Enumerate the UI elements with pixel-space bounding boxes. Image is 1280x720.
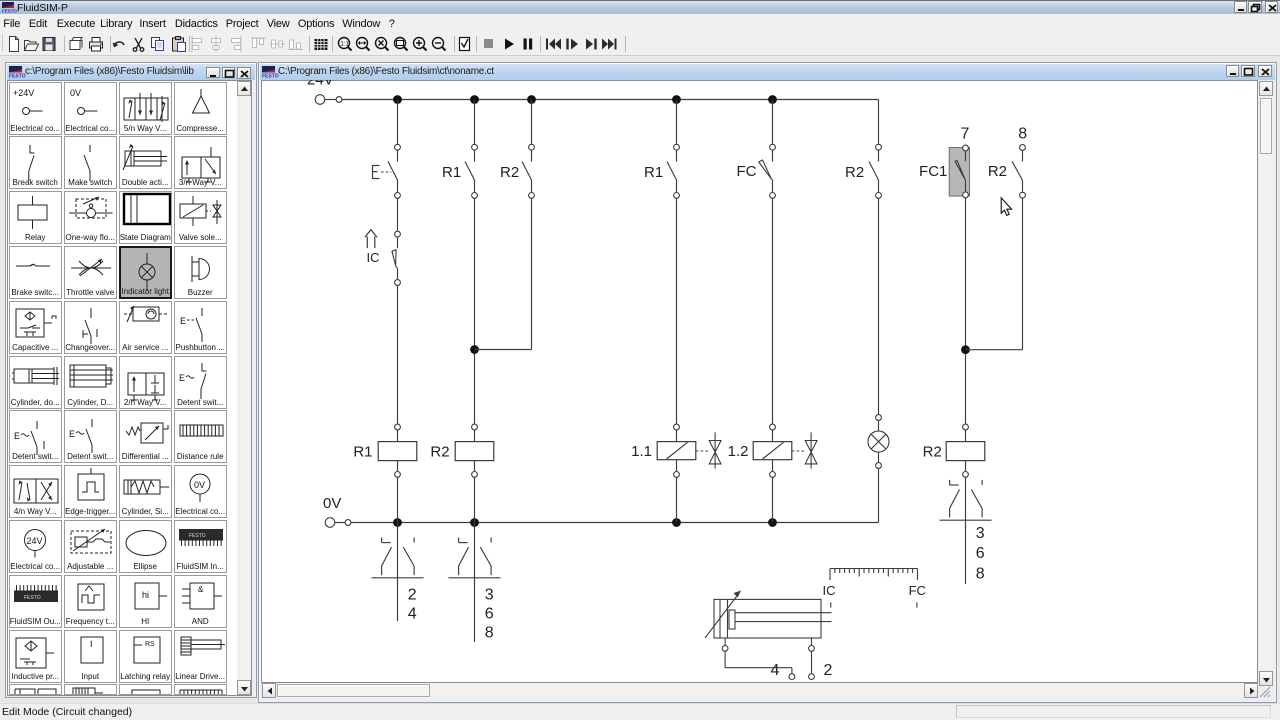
svg-text:FC1: FC1 <box>919 163 947 180</box>
library cell: Air service ... <box>119 301 172 354</box>
pushbutton switch E (make contact) <box>373 144 401 198</box>
wire branch6 mid <box>878 198 880 414</box>
wire branch8 down and left to B7 <box>966 198 1023 350</box>
library cell: partial <box>119 684 172 695</box>
svg-text:6: 6 <box>485 605 494 622</box>
svg-text:IC: IC <box>367 250 380 265</box>
svg-text:I: I <box>90 639 93 649</box>
node junction 0V/B5 <box>768 518 777 527</box>
library cell: Brake switc... <box>9 246 62 299</box>
contact cross-reference table R2-right (pins 3,6,8) <box>940 477 992 584</box>
wire 0V rail <box>351 522 879 524</box>
cylinder port 4 stub <box>722 638 728 651</box>
wire branch2 top <box>474 100 476 145</box>
svg-text:3: 3 <box>485 586 494 603</box>
contact R2 (make, node 8) <box>988 145 1026 199</box>
svg-text:&: & <box>198 585 204 594</box>
wire branch1 to 0V <box>397 477 399 522</box>
library cell: partial <box>174 684 227 695</box>
library cell: Cylinder, D... <box>64 356 117 409</box>
library cell: Adjustable ... <box>64 520 117 573</box>
node junction 24V/B5 <box>768 95 777 104</box>
node junction 0V/B2 <box>470 518 479 527</box>
node junction 0V/B1 <box>393 518 402 527</box>
library cell: Break switch <box>9 136 62 189</box>
wire branch1 mid <box>397 198 399 231</box>
node junction B2/B3 <box>470 345 479 354</box>
wire branch6 from 24V corner <box>878 100 880 145</box>
library cell: Compresse... <box>174 82 227 135</box>
library cell: Make switch <box>64 136 117 189</box>
svg-text:FESTO: FESTO <box>2 9 17 14</box>
selection highlight on FC1 <box>949 148 969 197</box>
valve solenoid 1.1 <box>631 424 721 477</box>
svg-text:8: 8 <box>976 566 985 583</box>
svg-text:2: 2 <box>824 662 833 679</box>
library cell: Distance rule <box>174 410 227 463</box>
distance rule with IC/FC positions <box>823 569 926 608</box>
wire branch4 to 0V <box>676 477 678 522</box>
svg-text:FESTO: FESTO <box>262 74 279 80</box>
library cell: Detent swit... <box>9 410 62 463</box>
library cell: AND <box>174 575 227 628</box>
limit switch contact FC (reed) <box>737 144 776 198</box>
library cell: Ellipse <box>119 520 172 573</box>
svg-text:R2: R2 <box>923 444 942 461</box>
library cell: Capacitive ... <box>9 301 62 354</box>
library cell: FluidSIM Ou... <box>9 575 62 628</box>
library cell: Valve sole... <box>174 191 227 244</box>
svg-text:E: E <box>179 373 185 383</box>
svg-text:IC: IC <box>823 583 836 598</box>
node 7 label <box>961 126 970 143</box>
wire branch5 mid <box>772 198 774 424</box>
svg-text:hi: hi <box>142 590 149 600</box>
svg-text:4: 4 <box>771 662 780 679</box>
wire branch5 to 0V <box>772 477 774 522</box>
svg-text:6: 6 <box>976 545 985 562</box>
library cell: Buzzer <box>174 246 227 299</box>
svg-text:1.2: 1.2 <box>728 443 749 460</box>
mouse cursor <box>1001 198 1011 216</box>
library cell: Cylinder, do... <box>9 356 62 409</box>
library cell: Relay <box>9 191 62 244</box>
svg-text:1.1: 1.1 <box>631 443 652 460</box>
library cell: Inductive pr... <box>9 630 62 683</box>
library cell: 2/n Way V... <box>119 356 172 409</box>
wire branch6 to 0V corner <box>878 468 880 522</box>
library cell: Linear Drive... <box>174 630 227 683</box>
wire branch2 to 0V <box>474 477 476 522</box>
svg-text:8: 8 <box>1018 126 1027 143</box>
svg-text:0V: 0V <box>194 480 205 490</box>
library cell: Detent swit... <box>64 410 117 463</box>
node 8 label <box>1018 126 1027 143</box>
library cell: Cylinder, Si... <box>119 465 172 518</box>
relay coil R1 <box>353 424 416 477</box>
wire branch7 mid <box>965 198 967 424</box>
svg-text:R1: R1 <box>353 444 372 461</box>
library cell: FluidSIM In... <box>174 520 227 573</box>
svg-text:E: E <box>14 431 20 441</box>
contact cross-reference table R2 (pins 3,6,8) <box>449 523 501 642</box>
contact R1 (make) <box>644 144 679 198</box>
svg-text:FC: FC <box>909 583 926 598</box>
library cell: Electrical co... <box>9 520 62 573</box>
svg-text:3: 3 <box>976 525 985 542</box>
cylinder port 2 stub <box>809 638 815 651</box>
node 24V supply terminal <box>307 72 342 105</box>
library cell: Electrical co... <box>64 82 117 135</box>
svg-text:7: 7 <box>961 126 970 143</box>
indicator light lamp <box>868 415 889 469</box>
library cell: Electrical co... <box>9 82 62 135</box>
svg-text:R2: R2 <box>845 164 864 181</box>
library cell: partial <box>64 684 117 695</box>
library cell: 4/n Way V... <box>9 465 62 518</box>
relay coil R2 <box>430 424 493 477</box>
node junction B7/B8 <box>961 345 970 354</box>
svg-text:24V: 24V <box>26 536 42 546</box>
wire branch2 mid <box>474 198 476 424</box>
library cell: Changeover... <box>64 301 117 354</box>
relay coil R2 (right) <box>923 424 985 477</box>
contact cross-reference table R1 (pins 2,4) <box>372 523 424 623</box>
contact R2 (make) <box>845 144 881 198</box>
valve solenoid 1.2 <box>728 424 817 477</box>
svg-text:RS: RS <box>145 641 155 648</box>
wire branch5 top <box>772 100 774 145</box>
svg-text:FC: FC <box>737 163 757 180</box>
wire branch4 top <box>676 100 678 145</box>
node junction 24V/B1 <box>393 95 402 104</box>
svg-text:24V: 24V <box>307 80 334 89</box>
svg-text:2: 2 <box>408 586 417 603</box>
svg-text:FESTO: FESTO <box>24 595 41 601</box>
wire port4 to terminal 4 <box>725 651 795 679</box>
wire 24V rail <box>342 99 879 101</box>
library cell: 5/n Way V... <box>119 82 172 135</box>
svg-text:R2: R2 <box>430 444 449 461</box>
library cell: Latching relay <box>119 630 172 683</box>
cylinder adjust arrow <box>705 591 741 639</box>
cylinder actuator body <box>714 599 832 638</box>
wire branch1 top <box>397 100 399 145</box>
library cell: 3/n Way V... <box>174 136 227 189</box>
library cell: HI <box>119 575 172 628</box>
svg-text:1:1: 1:1 <box>340 42 349 48</box>
contact R1 (make) <box>442 144 477 198</box>
library cell: Frequency t... <box>64 575 117 628</box>
proximity switch IC (reed contact) <box>365 230 401 286</box>
svg-text:4: 4 <box>408 605 417 622</box>
svg-text:R1: R1 <box>442 164 461 181</box>
svg-text:FESTO: FESTO <box>189 533 206 539</box>
wire port2 to terminal 2 <box>809 651 833 679</box>
node junction 24V/B4 <box>672 95 681 104</box>
library cell: Input <box>64 630 117 683</box>
library cell: Edge-trigger... <box>64 465 117 518</box>
svg-text:R1: R1 <box>644 164 663 181</box>
svg-text:R2: R2 <box>988 163 1007 180</box>
svg-text:FESTO: FESTO <box>9 74 26 80</box>
svg-text:0V: 0V <box>70 88 81 98</box>
node junction 0V/B4 <box>672 518 681 527</box>
wire branch3 top <box>531 100 533 145</box>
wire branch4 mid <box>676 198 678 424</box>
library cell: Indicator light <box>119 246 172 299</box>
svg-text:+24V: +24V <box>13 88 34 98</box>
node 0V supply terminal <box>323 495 351 527</box>
node junction 24V/B2 <box>470 95 479 104</box>
node junction 24V/B3 <box>527 95 536 104</box>
library cell: State Diagram <box>119 191 172 244</box>
svg-text:E: E <box>69 429 75 439</box>
wire branch1 lower <box>397 285 399 424</box>
svg-text:8: 8 <box>485 625 494 642</box>
library cell: Differential ... <box>119 410 172 463</box>
contact R2 (make, parallel holding) <box>500 144 534 198</box>
library cell: Throttle valve <box>64 246 117 299</box>
library cell: partial <box>9 684 62 695</box>
wire branch3 down and left to B2 <box>475 198 532 349</box>
svg-text:0V: 0V <box>323 495 341 512</box>
library cell: Double acti... <box>119 136 172 189</box>
library cell: One-way flo... <box>64 191 117 244</box>
limit switch contact FC1 <box>919 145 968 198</box>
library cell: Detent swit... <box>174 356 227 409</box>
svg-text:E: E <box>180 316 186 326</box>
library cell: Electrical co... <box>174 465 227 518</box>
library cell: Pushbutton ... <box>174 301 227 354</box>
svg-text:R2: R2 <box>500 164 519 181</box>
